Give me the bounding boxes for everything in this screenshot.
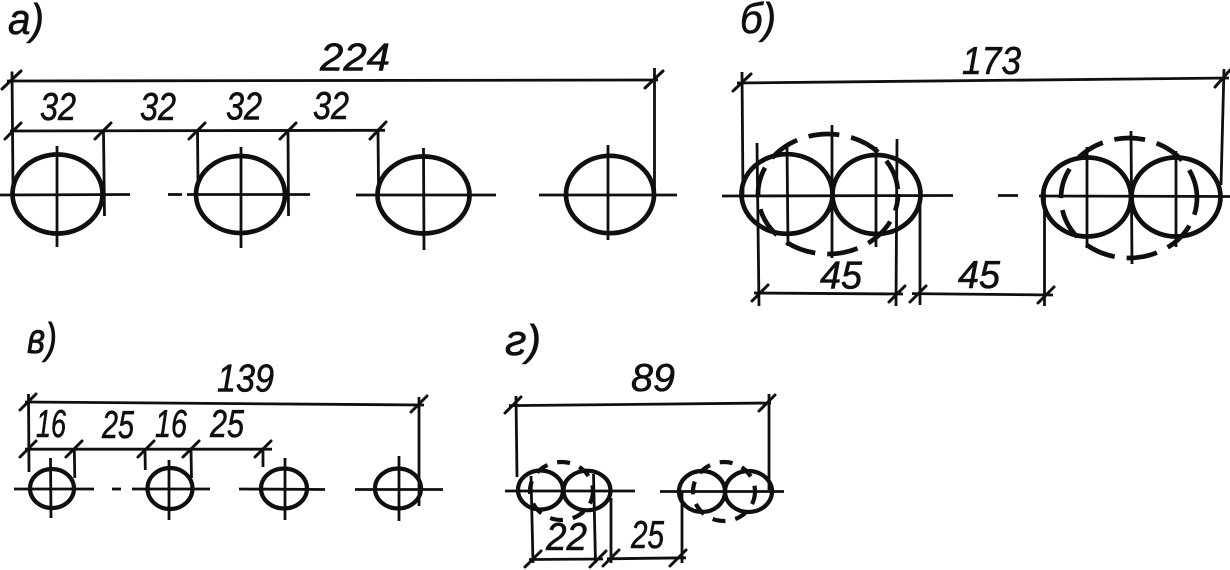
hole circle G4 [725, 471, 772, 512]
tick right 224 [645, 71, 663, 88]
dimension line 89 [509, 403, 771, 406]
svg-text:173: 173 [962, 40, 1021, 83]
svg-text:32: 32 [226, 86, 262, 129]
tick 45b left [910, 286, 926, 302]
extension line right V [418, 397, 421, 506]
svg-text:16: 16 [36, 403, 66, 446]
svg-text:32: 32 [313, 85, 349, 128]
tick 32 a [5, 123, 21, 139]
extension line v2 left [144, 449, 147, 470]
tick left 139 [20, 394, 36, 410]
hole circle V3 [261, 469, 307, 509]
horizontal centerline A seg2 [187, 193, 310, 196]
horizontal centerline A seg1 [0, 193, 130, 196]
svg-text:32: 32 [40, 86, 76, 129]
svg-text:224: 224 [319, 37, 390, 80]
vertical centerline B dashed left [831, 125, 834, 258]
dimension line 173 [737, 78, 1229, 83]
extension line right A [653, 68, 656, 194]
dimension line 32x4 [10, 129, 385, 132]
dimension line 139 [25, 402, 424, 405]
extension line v2 right [190, 449, 193, 478]
extension line right B [1221, 69, 1224, 185]
extension line v1 right [73, 449, 76, 478]
svg-text:б): б) [740, 0, 776, 43]
svg-text:45: 45 [820, 255, 862, 298]
horizontal centerline B seg1 [722, 194, 953, 197]
horizontal centerline B dash [998, 194, 1018, 197]
tick 32 c [189, 123, 205, 139]
svg-text:25: 25 [101, 404, 134, 447]
dimension line 16-25 [25, 448, 272, 451]
horizontal centerline V seg2 [132, 488, 210, 491]
tick v a [20, 441, 36, 457]
vertical centerline V2 [168, 460, 171, 520]
vertical centerline B2 [875, 147, 878, 247]
extension line hole3 left [377, 131, 380, 183]
hole circle A2 [196, 156, 285, 233]
extension line 45b right [1043, 193, 1046, 306]
dimension line 224 [7, 80, 658, 81]
horizontal centerline V dash [112, 488, 121, 491]
tick 32 d [280, 123, 296, 139]
svg-text:в): в) [27, 315, 57, 363]
horizontal centerline A seg4 [539, 194, 677, 197]
vertical centerline A1 [56, 146, 59, 247]
svg-text:22: 22 [545, 516, 587, 559]
tick v e [255, 441, 271, 457]
hole circle V4 [375, 469, 421, 509]
extension line right G [768, 394, 771, 490]
hole circle V1 [30, 469, 74, 508]
tick 45b right [1038, 287, 1054, 303]
tick 25 right [670, 550, 686, 566]
extension line 45a right [896, 139, 897, 306]
vertical centerline V1 [49, 458, 52, 518]
horizontal centerline G seg2 [660, 490, 784, 493]
vertical centerline V3 [284, 458, 287, 520]
tick 22 left [525, 551, 541, 567]
extension line left G [516, 396, 517, 477]
tick 32 e [370, 122, 386, 139]
hole circle B1 [742, 154, 833, 234]
dashed circle G right [693, 462, 755, 521]
extension line hole2 left [196, 131, 199, 184]
vertical centerline B3 [1086, 147, 1089, 248]
tick 32 b [95, 123, 111, 139]
svg-text:45: 45 [958, 254, 1000, 297]
dimension line 45a [754, 293, 903, 294]
hole circle B4 [1132, 158, 1221, 237]
vertical centerline V4 [398, 456, 401, 521]
horizontal centerline A dash [168, 193, 182, 196]
vertical centerline B1 [787, 146, 788, 246]
tick 25 left [603, 550, 619, 566]
hole circle B3 [1043, 158, 1131, 237]
svg-text:32: 32 [140, 86, 176, 129]
extension line hole2 right [287, 131, 290, 216]
extension line hole1 right [104, 131, 105, 216]
vertical centerline B4 [1175, 151, 1178, 247]
tick 22 right [590, 551, 606, 567]
vertical centerline B dashed right [1131, 131, 1132, 264]
hole circle V2 [148, 468, 193, 509]
dashed circle B right [1061, 138, 1197, 258]
extension line 22 right [594, 474, 596, 563]
tick right 89 [759, 395, 775, 411]
extension line v3 left [262, 449, 265, 467]
extension line 45a left [757, 143, 759, 306]
hole circle B2 [833, 155, 921, 234]
dimension line 22 [529, 558, 603, 561]
tick left 89 [505, 397, 521, 413]
tick v c [138, 441, 154, 457]
tick 45a right [889, 286, 905, 302]
extension line 25 right [681, 492, 684, 563]
hole circle G1 [518, 471, 563, 510]
tick left 224 [2, 71, 21, 89]
extension line left B [742, 72, 743, 196]
horizontal centerline B seg2 [1039, 195, 1230, 198]
tick 45a left [752, 285, 768, 301]
tick right 139 [411, 396, 427, 412]
svg-text:139: 139 [217, 358, 274, 401]
hole circle A3 [378, 157, 470, 234]
hole circle G2 [564, 471, 611, 511]
hole circle G3 [679, 471, 725, 512]
vertical centerline A2 [240, 147, 243, 248]
horizontal centerline V seg3 [239, 488, 325, 491]
horizontal centerline A seg3 [356, 194, 496, 197]
dimension line 45b [912, 294, 1053, 295]
extension line 45b left [919, 193, 922, 305]
horizontal centerline V seg1 [14, 488, 94, 491]
tick v b [66, 441, 82, 457]
horizontal centerline V seg4 [355, 488, 443, 491]
dashed circle G left [530, 462, 593, 520]
svg-text:г): г) [505, 317, 541, 365]
hole circle A1 [13, 155, 103, 234]
horizontal centerline G seg1 [505, 490, 635, 493]
extension line 25 left [610, 498, 613, 563]
svg-text:25: 25 [630, 514, 664, 557]
extension line left V [27, 394, 30, 472]
vertical centerline A3 [422, 148, 425, 250]
svg-text:а): а) [8, 0, 44, 44]
tick v d [183, 441, 199, 457]
svg-text:16: 16 [155, 403, 187, 446]
tick left 173 [733, 74, 751, 91]
extension line 22 left [531, 476, 533, 563]
svg-text:89: 89 [631, 357, 675, 400]
dimension line 25 [607, 558, 686, 559]
vertical centerline A4 [607, 145, 610, 240]
extension line left A [12, 72, 13, 187]
tick right 173 [1215, 70, 1230, 87]
svg-text:25: 25 [209, 403, 244, 446]
hole circle A4 [566, 156, 654, 233]
dashed circle B left [758, 134, 898, 254]
